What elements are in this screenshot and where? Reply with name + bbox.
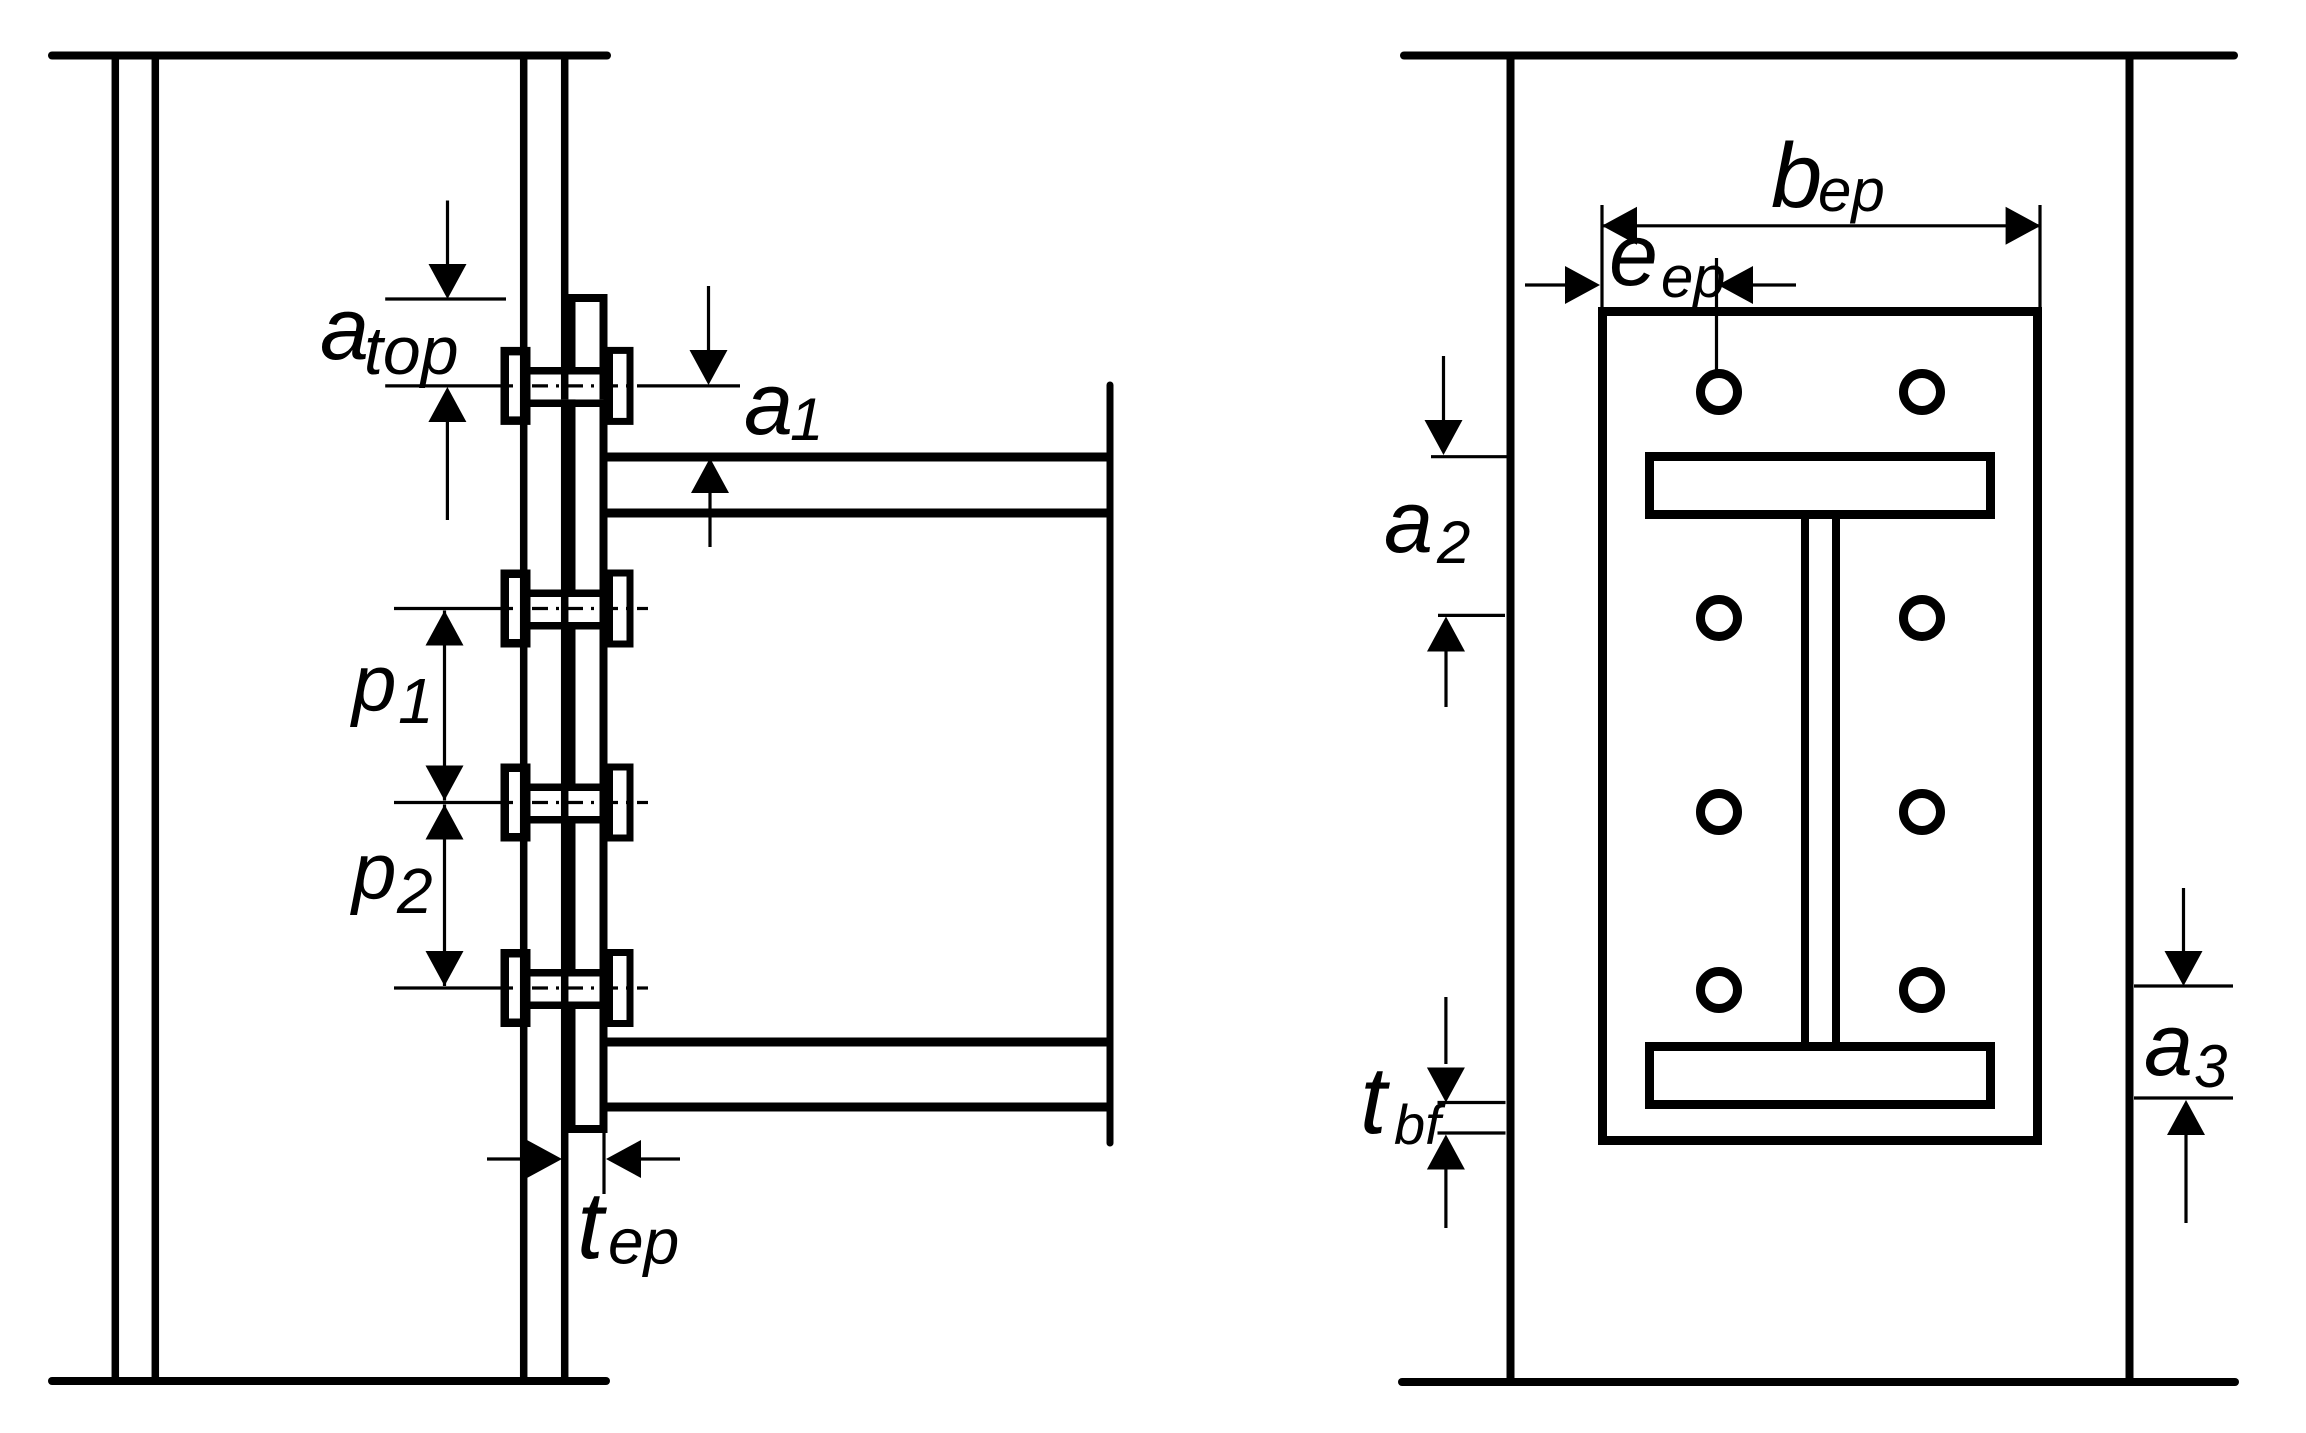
beam web right line	[1832, 519, 1840, 1042]
beam end break line	[1107, 385, 1114, 1143]
column right flange outer line	[561, 59, 569, 1378]
beam bottom flange - bottom line	[608, 1103, 1111, 1112]
bolt hole row 4 col 1	[1701, 972, 1738, 1009]
dimension t_ep	[602, 1133, 605, 1194]
svg-text:1: 1	[790, 386, 823, 453]
svg-text:a: a	[744, 354, 793, 453]
dimension a1	[707, 286, 710, 352]
svg-text:top: top	[364, 313, 459, 389]
svg-text:t: t	[1360, 1047, 1390, 1154]
bolt row 4 (side view)	[531, 975, 604, 1002]
column top edge (left view)	[52, 52, 607, 60]
beam top flange - top line	[608, 453, 1111, 462]
svg-text:a: a	[1384, 472, 1433, 571]
svg-text:e: e	[1609, 205, 1658, 304]
column top edge (front view)	[1404, 52, 2234, 60]
svg-text:3: 3	[2194, 1033, 2227, 1100]
bolt hole row 1 col 1	[1701, 374, 1738, 411]
column left edge line (front view)	[1507, 59, 1515, 1378]
svg-text:b: b	[1771, 125, 1822, 227]
beam top flange (front view)	[1650, 457, 1991, 515]
bolt hole row 4 col 2	[1904, 972, 1941, 1009]
column bottom edge (left view)	[52, 1377, 606, 1385]
svg-text:ep: ep	[1818, 157, 1885, 224]
bolt hole row 3 col 1	[1701, 794, 1738, 831]
bolt hole row 2 col 1	[1701, 600, 1738, 637]
svg-text:bf: bf	[1394, 1093, 1446, 1156]
bolt row 1 centerline	[385, 384, 497, 387]
column right edge line (front view)	[2126, 59, 2134, 1378]
end plate (side view)	[572, 298, 604, 1129]
bolt row 3 centerline	[394, 801, 497, 804]
bolt hole row 2 col 2	[1904, 600, 1941, 637]
svg-text:p: p	[350, 827, 397, 916]
svg-text:t: t	[577, 1172, 607, 1279]
bolt row 3 (side view)	[531, 789, 604, 816]
dimension p2	[426, 805, 464, 840]
dimension e_ep	[1525, 283, 1568, 286]
svg-text:a: a	[320, 279, 369, 378]
dimension b_ep	[1600, 205, 1603, 308]
bolt hole row 1 col 2	[1904, 374, 1941, 411]
dimension p1	[426, 611, 464, 646]
bolt row 2 centerline	[394, 607, 497, 610]
column bottom edge (front view)	[1402, 1378, 2235, 1386]
column left flange line 2	[152, 59, 160, 1378]
svg-text:2: 2	[1436, 509, 1470, 576]
bolt row 2 (side view)	[531, 595, 604, 622]
beam web left line	[1801, 519, 1809, 1042]
end plate (front view)	[1603, 312, 2038, 1141]
svg-text:a: a	[2144, 995, 2193, 1094]
dimension a3	[2134, 984, 2233, 987]
svg-text:ep: ep	[1661, 245, 1726, 310]
beam top flange - bottom line	[608, 509, 1111, 518]
svg-text:p: p	[350, 639, 397, 728]
dimension a_top	[385, 297, 506, 300]
svg-text:2: 2	[396, 855, 433, 927]
beam bottom flange - top line	[608, 1038, 1111, 1047]
bolt row 1 (side view)	[531, 372, 604, 399]
column left flange line 1	[112, 59, 120, 1378]
bolt hole row 3 col 2	[1904, 794, 1941, 831]
svg-text:ep: ep	[608, 1206, 679, 1278]
beam bottom flange (front view)	[1650, 1047, 1991, 1105]
bolt row 4 centerline	[394, 986, 497, 989]
column right flange inner line	[520, 59, 528, 1378]
svg-text:1: 1	[398, 665, 434, 737]
dimension t_bf	[1438, 1101, 1506, 1104]
dimension a2	[1431, 455, 1507, 458]
